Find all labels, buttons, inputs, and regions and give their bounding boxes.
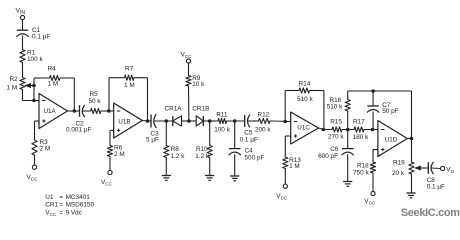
resistor R15: [328, 118, 344, 140]
wire: [344, 129, 352, 131]
node B junction CR1A/CR1B/R9: [187, 119, 191, 123]
node U1D inverting input: [371, 128, 375, 132]
node at U1A inverting input: [32, 99, 36, 103]
capacitor C3: [146, 115, 159, 144]
ground: [230, 176, 239, 181]
svg-text:U1C: U1C: [297, 124, 310, 131]
resistor R11: [214, 111, 230, 133]
op-amp U1C: [291, 112, 319, 144]
op-amp U1D: [378, 121, 407, 157]
wire: [272, 120, 291, 123]
node VIN label: [16, 7, 26, 16]
svg-text:CR1: CR1: [45, 202, 58, 209]
terminal VIN: [20, 15, 24, 19]
svg-text:R19: R19: [393, 160, 405, 167]
svg-text:R8: R8: [171, 146, 180, 153]
wire: [83, 110, 89, 112]
wire: [147, 78, 149, 121]
svg-text:270 k: 270 k: [328, 134, 344, 141]
terminal VCC: [108, 170, 112, 174]
wire: [407, 138, 411, 140]
wire: [154, 120, 173, 122]
terminal VCC: [371, 191, 375, 195]
svg-text:1 M: 1 M: [7, 85, 18, 92]
wire: [110, 130, 114, 143]
resistor R5: [89, 91, 104, 113]
svg-text:600 pF: 600 pF: [318, 153, 338, 160]
resistor R13: [283, 155, 302, 171]
resistor R9: [186, 63, 205, 121]
svg-text:510 k: 510 k: [297, 96, 313, 103]
terminal VCC: [186, 59, 190, 63]
wire: [432, 167, 441, 170]
diode CR1A: [165, 106, 183, 127]
capacitor C4: [229, 121, 265, 176]
svg-text:750 k: 750 k: [353, 170, 369, 177]
svg-text:50 k: 50 k: [89, 98, 102, 105]
wire: [35, 121, 40, 138]
wire: [182, 120, 197, 122]
svg-text:U1B: U1B: [118, 119, 130, 126]
wiper of R19: [415, 166, 428, 170]
node VCC label: [101, 179, 113, 187]
node U1B inverting input: [107, 109, 111, 113]
node A junction C3/R8/CR1A: [165, 119, 169, 123]
svg-text:1 M: 1 M: [48, 80, 59, 87]
wire: [285, 136, 290, 155]
wiper of R2: [25, 84, 36, 88]
wire: [73, 78, 75, 111]
wire: [22, 36, 24, 48]
resistor R18: [353, 160, 376, 177]
resistor R1: [20, 48, 44, 65]
svg-text:200 k: 200 k: [255, 126, 271, 133]
svg-text:1 M: 1 M: [289, 163, 300, 170]
note U1 = MC3401: [45, 194, 90, 201]
wire: [22, 20, 24, 30]
svg-text:MC3401: MC3401: [66, 194, 91, 201]
wire: [372, 175, 374, 191]
svg-text:20 k: 20 k: [392, 170, 405, 177]
svg-text:R2: R2: [10, 76, 19, 83]
wire: [366, 129, 378, 131]
svg-text:C5: C5: [244, 129, 253, 136]
capacitor C6: [318, 130, 353, 182]
svg-text:0.1 µF: 0.1 µF: [240, 137, 258, 144]
svg-text:180 k: 180 k: [353, 134, 369, 141]
svg-text:510 k: 510 k: [327, 104, 343, 111]
terminal VO: [441, 166, 445, 170]
svg-text:100 k: 100 k: [27, 56, 43, 63]
svg-text:10 k: 10 k: [192, 81, 205, 88]
ground: [205, 176, 214, 181]
capacitor C2: [66, 105, 91, 133]
ground: [343, 182, 352, 187]
node U1D output: [410, 137, 414, 141]
svg-text:CR1B: CR1B: [192, 106, 209, 113]
node C7 tap on rail: [371, 89, 375, 93]
wire: [68, 110, 80, 112]
resistor R10: [195, 121, 212, 175]
node D junction R11/C4/C5: [233, 119, 237, 123]
svg-text:U1: U1: [45, 194, 54, 201]
potentiometer R2: [7, 76, 26, 92]
ground: [406, 193, 415, 198]
wire: [142, 120, 151, 123]
svg-text:R4: R4: [48, 66, 57, 73]
wire: [34, 157, 36, 165]
wire: [203, 120, 216, 122]
wire: [284, 171, 286, 185]
node VCC label: [27, 174, 39, 182]
svg-text:2 M: 2 M: [40, 146, 51, 153]
svg-text:100 k: 100 k: [214, 126, 230, 133]
node VCC label: [364, 198, 376, 206]
capacitor C7: [367, 91, 398, 130]
terminal VCC: [283, 184, 287, 188]
svg-text:=: =: [59, 209, 63, 216]
resistor R8: [164, 121, 186, 175]
potentiometer R19: [392, 139, 414, 193]
svg-text:U1A: U1A: [44, 108, 57, 115]
svg-text:2 M: 2 M: [114, 151, 125, 158]
resistor R17: [352, 118, 369, 140]
wire: [22, 65, 24, 76]
svg-text:R17: R17: [353, 118, 365, 125]
note VCC = 9 Vdc: [45, 209, 82, 217]
svg-text:1.2 k: 1.2 k: [171, 153, 186, 160]
svg-text:U1D: U1D: [385, 137, 398, 144]
watermark SeekIC.com: [401, 207, 460, 219]
wire feedback rail: [348, 91, 412, 139]
node U1C inverting input: [283, 120, 287, 124]
wire: [23, 92, 40, 101]
svg-text:0.001 µF: 0.001 µF: [66, 126, 91, 133]
op-amp U1A: [39, 94, 68, 129]
capacitor C5: [240, 115, 258, 144]
resistor R4: [34, 66, 74, 88]
resistor R16: [327, 91, 351, 130]
wire: [248, 120, 257, 122]
op-amp U1B: [114, 103, 143, 138]
node U1A output: [73, 109, 77, 113]
note CR1 = MSD6150: [45, 202, 94, 209]
node U1C output: [322, 128, 326, 132]
terminal VCC: [32, 165, 36, 169]
svg-text:=: =: [59, 194, 63, 201]
svg-text:0.1 µF: 0.1 µF: [32, 34, 50, 41]
svg-text:R18: R18: [357, 163, 369, 170]
capacitor C1: [17, 27, 51, 41]
capacitor C8: [427, 162, 445, 190]
svg-text:500 pF: 500 pF: [245, 155, 265, 162]
wire: [319, 128, 331, 130]
svg-text:MSD6150: MSD6150: [66, 202, 95, 209]
svg-text:5 µF: 5 µF: [146, 136, 159, 143]
resistor R12: [255, 111, 272, 133]
node VCC label: [181, 51, 193, 59]
node junction R15/R16/R17/C6: [346, 128, 350, 132]
svg-text:R15: R15: [330, 118, 342, 125]
svg-text:50 pF: 50 pF: [382, 108, 398, 115]
wire: [103, 110, 114, 112]
wire: [109, 159, 111, 171]
node C junction CR1B/R10/R11: [208, 119, 212, 123]
svg-text:R14: R14: [299, 80, 311, 87]
svg-text:1 M: 1 M: [124, 82, 135, 89]
resistor R7: [109, 66, 148, 112]
wire: [33, 78, 35, 101]
ground: [162, 176, 171, 181]
node VO label: [446, 166, 454, 174]
svg-text:R7: R7: [125, 66, 134, 73]
svg-text:1.2 k: 1.2 k: [195, 153, 210, 160]
svg-text:CR1A: CR1A: [165, 106, 183, 113]
wire: [229, 120, 245, 122]
resistor R6: [107, 144, 124, 159]
svg-text:R11: R11: [216, 111, 228, 118]
node VCC label: [276, 193, 288, 201]
svg-text:R10: R10: [196, 146, 208, 153]
svg-text:SeekIC.com: SeekIC.com: [401, 207, 460, 219]
node U1B output: [146, 119, 150, 123]
wire: [373, 150, 378, 162]
resistor R3: [32, 138, 50, 157]
svg-text:R12: R12: [258, 111, 270, 118]
svg-text:9 Vdc: 9 Vdc: [66, 209, 83, 216]
svg-text:0.1 µF: 0.1 µF: [427, 184, 445, 191]
diode CR1B: [192, 106, 209, 127]
svg-text:=: =: [59, 202, 63, 209]
resistor R14: [285, 80, 324, 129]
svg-text:C4: C4: [245, 148, 254, 155]
